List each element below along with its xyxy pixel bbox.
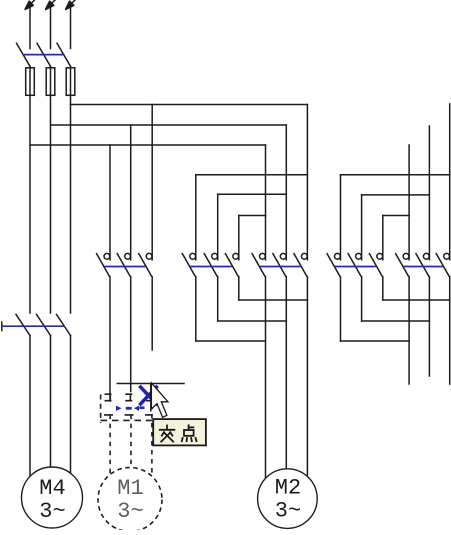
svg-text:3~: 3~	[275, 499, 301, 524]
svg-text:3~: 3~	[39, 499, 65, 524]
svg-text:3~: 3~	[117, 499, 143, 524]
svg-text:M1: M1	[117, 476, 143, 501]
svg-text:M4: M4	[39, 476, 65, 501]
svg-text:M2: M2	[275, 476, 301, 501]
